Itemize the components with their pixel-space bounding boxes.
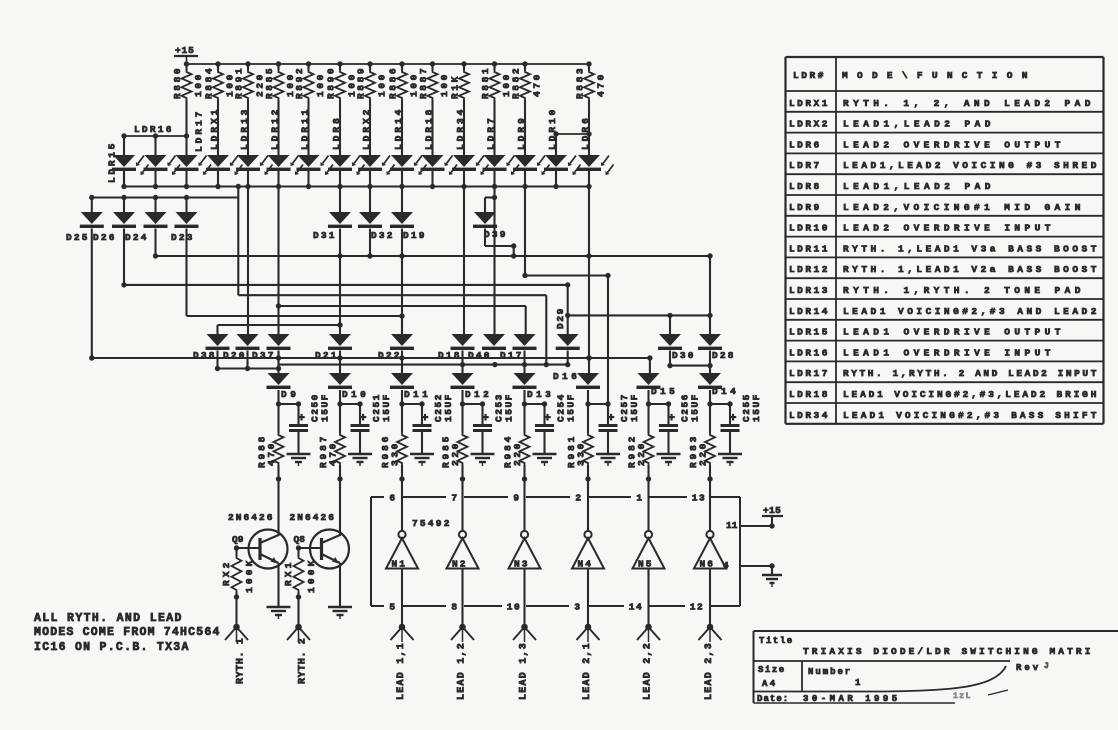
svg-text:RX1: RX1 [283, 560, 294, 586]
svg-text:LDR9: LDR9 [789, 202, 822, 213]
svg-text:D23: D23 [171, 232, 195, 243]
svg-text:N5: N5 [638, 559, 653, 570]
svg-text:D15: D15 [651, 386, 677, 397]
svg-text:220: 220 [450, 441, 461, 466]
svg-text:15UF: 15UF [629, 392, 640, 422]
svg-text:LEAD 2,2: LEAD 2,2 [643, 642, 654, 700]
svg-text:+: + [298, 413, 305, 425]
svg-text:LEAD 1,3: LEAD 1,3 [519, 642, 530, 700]
svg-text:10: 10 [507, 602, 521, 613]
svg-text:15UF: 15UF [381, 392, 392, 422]
svg-text:D22: D22 [378, 350, 402, 361]
svg-text:2N6426: 2N6426 [228, 512, 275, 523]
svg-text:LDRX2: LDRX2 [789, 119, 830, 130]
svg-text:13: 13 [692, 493, 706, 504]
svg-text:D20: D20 [223, 350, 247, 361]
svg-text:D32: D32 [371, 230, 395, 241]
svg-text:D16: D16 [553, 371, 579, 382]
svg-text:LEAD1 VOICING#2,#3 BASS SHIFT: LEAD1 VOICING#2,#3 BASS SHIFT [843, 410, 1099, 421]
svg-text:LDR8: LDR8 [331, 116, 342, 150]
svg-text:100: 100 [315, 72, 326, 97]
svg-text:LDR15: LDR15 [107, 141, 118, 183]
svg-text:LDR11: LDR11 [789, 243, 830, 254]
svg-text:330: 330 [390, 441, 401, 466]
svg-text:LDRX1: LDRX1 [789, 98, 830, 109]
svg-text:LEAD1,LEAD2 VOICING #3 SHRED: LEAD1,LEAD2 VOICING #3 SHRED [843, 160, 1099, 171]
svg-text:D26: D26 [93, 232, 117, 243]
svg-text:D13: D13 [527, 389, 553, 400]
svg-text:N4: N4 [578, 559, 593, 570]
svg-text:+: + [668, 413, 675, 425]
svg-text:RYTH. 1, 2, AND LEAD2 PAD: RYTH. 1, 2, AND LEAD2 PAD [843, 98, 1093, 109]
svg-text:RYTH. 1: RYTH. 1 [236, 637, 247, 684]
svg-text:RYTH. 1,RYTH. 2 AND LEAD2 INPU: RYTH. 1,RYTH. 2 AND LEAD2 INPUT [843, 368, 1099, 379]
svg-text:RYTH. 1,LEAD1 V3a BASS BOOST: RYTH. 1,LEAD1 V3a BASS BOOST [843, 243, 1099, 254]
svg-text:N6: N6 [700, 559, 715, 570]
svg-text:4: 4 [723, 560, 730, 571]
svg-text:LDR13: LDR13 [239, 107, 250, 150]
svg-text:+: + [544, 413, 551, 425]
svg-text:D30: D30 [672, 350, 696, 361]
svg-text:N1: N1 [392, 559, 407, 570]
svg-text:D19: D19 [403, 230, 427, 241]
svg-text:100: 100 [377, 72, 388, 97]
svg-text:Q9: Q9 [232, 534, 246, 545]
svg-text:+15: +15 [763, 505, 782, 516]
svg-text:RX2: RX2 [221, 560, 232, 586]
svg-text:LDR#: LDR# [793, 70, 826, 81]
svg-text:+: + [360, 413, 367, 425]
svg-text:D39: D39 [484, 229, 508, 240]
svg-text:LDR12: LDR12 [270, 107, 281, 150]
svg-text:+: + [730, 413, 737, 425]
svg-text:9: 9 [513, 493, 520, 504]
svg-text:LDR11: LDR11 [300, 107, 311, 150]
svg-text:D12: D12 [465, 389, 491, 400]
svg-text:LDRX2: LDRX2 [361, 107, 372, 150]
svg-text:RYTH. 2: RYTH. 2 [298, 637, 309, 684]
svg-text:LDR6: LDR6 [789, 139, 822, 150]
svg-text:LEAD 1,1: LEAD 1,1 [396, 642, 407, 700]
svg-text:N3: N3 [514, 559, 529, 570]
svg-text:LDR17: LDR17 [789, 368, 830, 379]
svg-text:R885: R885 [264, 66, 275, 99]
svg-text:R881: R881 [480, 66, 491, 99]
svg-text:Size: Size [758, 665, 786, 675]
svg-text:D40: D40 [468, 350, 492, 361]
svg-text:LEAD1 OVERDRIVE OUTPUT: LEAD1 OVERDRIVE OUTPUT [843, 327, 1063, 338]
svg-text:7: 7 [451, 493, 458, 504]
svg-text:+15: +15 [175, 45, 195, 56]
svg-text:LEAD 1,2: LEAD 1,2 [457, 642, 468, 700]
svg-text:220: 220 [636, 441, 647, 466]
svg-text:LEAD2 OVERDRIVE OUTPUT: LEAD2 OVERDRIVE OUTPUT [843, 139, 1063, 150]
svg-text:LDR34: LDR34 [789, 410, 830, 421]
svg-text:LEAD1 VOICING#2,#3 AND LEAD2: LEAD1 VOICING#2,#3 AND LEAD2 [843, 306, 1099, 317]
svg-text:J: J [1044, 662, 1049, 671]
svg-text:8: 8 [451, 602, 458, 613]
svg-text:Rev: Rev [1016, 663, 1040, 673]
svg-text:R892: R892 [294, 66, 305, 99]
svg-text:100: 100 [193, 72, 204, 97]
svg-text:LDR15: LDR15 [789, 327, 830, 338]
svg-text:+: + [422, 413, 429, 425]
svg-text:A4: A4 [762, 679, 777, 689]
svg-text:12: 12 [690, 602, 704, 613]
svg-text:N2: N2 [452, 559, 467, 570]
svg-text:R887: R887 [418, 66, 429, 99]
svg-text:15UF: 15UF [566, 392, 577, 422]
svg-text:100: 100 [439, 72, 450, 97]
svg-text:R883: R883 [575, 66, 586, 99]
svg-text:75492: 75492 [412, 518, 452, 529]
svg-text:R891: R891 [234, 66, 245, 99]
svg-text:LDR14: LDR14 [393, 107, 404, 150]
svg-text:LEAD 2,1: LEAD 2,1 [582, 642, 593, 700]
svg-text:R1K: R1K [450, 74, 461, 99]
svg-text:330: 330 [576, 441, 587, 466]
svg-text:470: 470 [596, 72, 607, 97]
svg-text:6: 6 [389, 493, 396, 504]
svg-text:LDR34: LDR34 [455, 107, 466, 150]
svg-text:+: + [608, 413, 615, 425]
svg-text:2N6426: 2N6426 [290, 512, 337, 523]
svg-text:15UF: 15UF [320, 392, 331, 422]
svg-text:R886: R886 [388, 66, 399, 99]
svg-text:15UF: 15UF [504, 392, 515, 422]
svg-text:D25: D25 [66, 232, 90, 243]
svg-text:D38: D38 [193, 350, 217, 361]
svg-text:+: + [482, 413, 489, 425]
svg-text:LDR16: LDR16 [134, 124, 174, 135]
svg-text:LDR10: LDR10 [547, 107, 558, 150]
svg-text:D10: D10 [342, 389, 368, 400]
svg-text:100K: 100K [244, 558, 255, 593]
svg-text:5: 5 [389, 602, 396, 613]
svg-text:D28: D28 [712, 350, 736, 361]
svg-text:Q8: Q8 [294, 534, 308, 545]
svg-text:1zL: 1zL [953, 692, 972, 701]
svg-text:LDR7: LDR7 [486, 116, 497, 150]
svg-text:15UF: 15UF [690, 392, 701, 422]
svg-text:LEAD1 VOICING#2,#3,LEAD2 BRIGH: LEAD1 VOICING#2,#3,LEAD2 BRIGH [843, 389, 1099, 400]
svg-text:LDR10: LDR10 [789, 223, 830, 234]
svg-text:R889: R889 [356, 66, 367, 99]
svg-text:RYTH. 1,RYTH. 2 TONE PAD: RYTH. 1,RYTH. 2 TONE PAD [843, 285, 1083, 296]
svg-text:LDR12: LDR12 [789, 264, 830, 275]
svg-text:R884: R884 [204, 66, 215, 99]
svg-text:220: 220 [698, 441, 709, 466]
svg-text:15UF: 15UF [751, 392, 762, 422]
svg-text:LEAD1,LEAD2 PAD: LEAD1,LEAD2 PAD [843, 119, 993, 130]
svg-text:470: 470 [328, 441, 339, 466]
svg-text:LDR17: LDR17 [194, 109, 205, 152]
svg-text:D9: D9 [281, 389, 299, 400]
svg-text:LDR8: LDR8 [789, 181, 822, 192]
svg-text:ALL RYTH. AND LEAD: ALL RYTH. AND LEAD [34, 612, 184, 625]
svg-text:LDR7: LDR7 [789, 160, 822, 171]
svg-text:D11: D11 [404, 389, 430, 400]
svg-text:LEAD1 OVERDRIVE INPUT: LEAD1 OVERDRIVE INPUT [843, 347, 1053, 358]
svg-text:3: 3 [574, 602, 581, 613]
svg-text:470: 470 [532, 72, 543, 97]
svg-text:R890: R890 [326, 66, 337, 99]
svg-text:D24: D24 [125, 232, 149, 243]
svg-text:100K: 100K [306, 558, 317, 593]
svg-text:D31: D31 [313, 230, 337, 241]
svg-text:R880: R880 [172, 66, 183, 99]
svg-text:14: 14 [629, 602, 643, 613]
svg-text:LDR18: LDR18 [789, 389, 830, 400]
svg-text:LDR9: LDR9 [516, 116, 527, 150]
svg-text:IC16 ON P.C.B. TX3A: IC16 ON P.C.B. TX3A [34, 641, 191, 654]
svg-text:MODES COME FROM 74HC564: MODES COME FROM 74HC564 [34, 626, 222, 639]
svg-text:D29: D29 [555, 306, 566, 329]
svg-text:220: 220 [512, 441, 523, 466]
svg-text:11: 11 [726, 520, 739, 531]
svg-text:LDR18: LDR18 [424, 107, 435, 150]
svg-text:2: 2 [575, 493, 582, 504]
svg-text:LEAD2 OVERDRIVE INPUT: LEAD2 OVERDRIVE INPUT [843, 223, 1053, 234]
svg-text:D21: D21 [315, 350, 339, 361]
svg-text:RYTH. 1,LEAD1 V2a BASS BOOST: RYTH. 1,LEAD1 V2a BASS BOOST [843, 264, 1099, 275]
svg-text:1: 1 [855, 678, 862, 688]
svg-text:D18: D18 [438, 350, 462, 361]
svg-text:TRIAXIS DIODE/LDR SWITCHING M: TRIAXIS DIODE/LDR SWITCHING MATRI [803, 646, 1093, 657]
svg-text:LEAD1,LEAD2 PAD: LEAD1,LEAD2 PAD [843, 181, 993, 192]
svg-text:1: 1 [636, 493, 643, 504]
svg-text:D14: D14 [712, 386, 738, 397]
svg-text:470: 470 [266, 441, 277, 466]
svg-text:LDR14: LDR14 [789, 306, 830, 317]
svg-text:Title: Title [759, 636, 794, 646]
svg-text:LEAD 2,3: LEAD 2,3 [704, 642, 715, 700]
svg-text:LDRX1: LDRX1 [209, 107, 220, 150]
svg-text:LDR16: LDR16 [789, 347, 830, 358]
svg-text:D37: D37 [252, 350, 276, 361]
svg-text:LEAD2,VOICING#1 MID GAIN: LEAD2,VOICING#1 MID GAIN [843, 202, 1083, 213]
svg-text:R882: R882 [511, 66, 522, 99]
svg-text:15UF: 15UF [443, 392, 454, 422]
svg-text:LDR13: LDR13 [789, 285, 830, 296]
svg-text:D17: D17 [500, 350, 524, 361]
svg-text:Number: Number [808, 667, 852, 677]
